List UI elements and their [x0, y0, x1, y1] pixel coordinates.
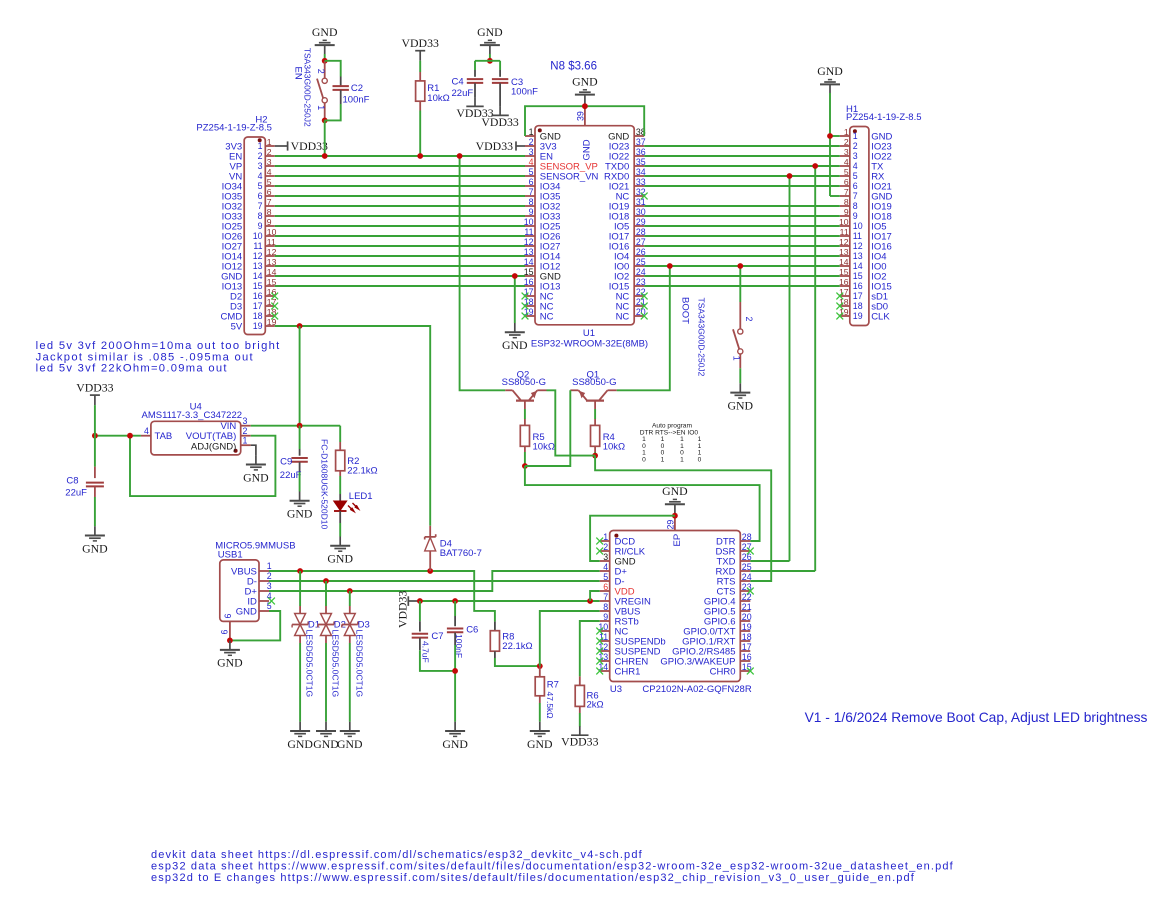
U1 pin 10 IO25: [525, 225, 535, 227]
svg-text:1: 1: [680, 456, 684, 463]
junction EP ground: [672, 513, 678, 519]
junction USB shield: [227, 638, 233, 644]
svg-text:C9: C9: [280, 457, 292, 468]
ground below D1: [299, 722, 301, 731]
junction U1 top GND: [582, 103, 588, 109]
svg-text:2: 2: [529, 137, 534, 147]
capacitor C7 4.7uF: [419, 601, 421, 621]
junction TAB VDD33 C8: [92, 433, 98, 439]
ground below USB1: [229, 641, 231, 650]
U1 pin 11 IO26: [525, 235, 535, 237]
resistor R1 10k: [419, 72, 421, 81]
H1 pin 5 RX: [840, 175, 850, 177]
svg-text:4: 4: [258, 171, 263, 181]
svg-text:7: 7: [853, 191, 858, 201]
wire VP H2.3 to U1: [275, 165, 525, 167]
U1 pin 32 NC: [634, 195, 644, 197]
wire U3 RSTb to R6: [580, 621, 600, 676]
wire D3 to ground: [349, 643, 351, 722]
connector H2 PZ254-1-19-Z-8.5: [244, 137, 265, 335]
svg-text:3: 3: [844, 147, 849, 157]
svg-text:10: 10: [839, 217, 849, 227]
H1 pin 9 IO18: [840, 215, 850, 217]
svg-text:2: 2: [316, 69, 326, 74]
capacitor C6 100nF: [454, 601, 456, 616]
wire EN row branch down to Q2 collector: [460, 156, 506, 390]
H1 pin 4 TX: [840, 165, 850, 167]
svg-text:18: 18: [253, 311, 263, 321]
svg-text:2kΩ: 2kΩ: [587, 699, 604, 710]
svg-text:3: 3: [267, 157, 272, 167]
svg-text:22.1kΩ: 22.1kΩ: [502, 641, 532, 652]
svg-text:devkit data sheet https://dl.e: devkit data sheet https://dl.espressif.c…: [151, 849, 643, 861]
svg-text:4: 4: [603, 562, 608, 572]
junction 5V to regulator: [297, 323, 303, 329]
wire divider node to U3 VBUS pin: [540, 611, 600, 666]
svg-text:C7: C7: [431, 631, 443, 642]
U3 pin 22 GPIO.4: [740, 600, 750, 602]
svg-text:NC: NC: [616, 311, 630, 322]
U1 pin 1 GND: [525, 135, 535, 137]
junction D4 on VBUS: [427, 568, 433, 574]
U3 pin 10 NC: [600, 630, 610, 632]
USB1 pin 4 ID: [259, 600, 269, 602]
resistor R4 10k: [594, 419, 596, 425]
svg-text:13: 13: [524, 247, 534, 257]
U1 pin 25 IO0: [634, 265, 644, 267]
wire IO12 H2.13 to U1: [275, 265, 525, 267]
svg-text:SS8050-G: SS8050-G: [572, 377, 616, 388]
U1 pin 22 NC: [634, 295, 644, 297]
wire TAB row: [95, 435, 141, 437]
svg-text:9: 9: [258, 221, 263, 231]
svg-text:14: 14: [524, 257, 534, 267]
U1 pin 2 3V3: [525, 145, 535, 147]
USB1 pin 2 D-: [259, 580, 269, 582]
U1 pin 24 IO2: [634, 275, 644, 277]
svg-text:6: 6: [223, 614, 233, 619]
wire LED1 to ground: [339, 523, 341, 537]
svg-text:NC: NC: [540, 311, 554, 322]
wire R8 bottom to divider node: [495, 658, 540, 666]
U3 pin 25 RXD: [740, 570, 750, 572]
svg-text:15: 15: [839, 267, 849, 277]
H1 pin 15 IO2: [840, 275, 850, 277]
svg-text:GND: GND: [502, 338, 528, 352]
svg-text:V1 - 1/6/2024 Remove Boot Cap,: V1 - 1/6/2024 Remove Boot Cap, Adjust LE…: [805, 710, 1148, 725]
H2 pin 5 IO34: [265, 185, 274, 187]
svg-text:2: 2: [844, 137, 849, 147]
H2 pin 15 IO13: [265, 285, 274, 287]
U3 pin 26 TXD: [740, 560, 750, 562]
USB1 pin 3 D+: [259, 590, 269, 592]
U1 pin 39 GND pad: [584, 106, 586, 126]
diode D4 BAT760-7: [429, 526, 431, 537]
svg-text:LED1: LED1: [349, 491, 373, 502]
svg-text:CHR0: CHR0: [710, 666, 736, 677]
U1 pin 38 GND: [634, 135, 644, 137]
svg-text:GND: GND: [442, 737, 468, 751]
H2 pin 6 IO35: [265, 195, 274, 197]
wire IO17 U1 to H1: [644, 235, 840, 237]
svg-text:8: 8: [267, 207, 272, 217]
svg-text:GND: GND: [313, 737, 339, 751]
svg-text:5: 5: [853, 171, 858, 181]
svg-text:ADJ(GND): ADJ(GND): [191, 441, 236, 452]
wire IO35 H2.6 to U1: [275, 195, 525, 197]
svg-text:EN: EN: [293, 67, 304, 80]
H1 pin 18 sD0: [840, 305, 850, 307]
U1 pin 14 IO12: [525, 265, 535, 267]
svg-text:GND: GND: [236, 606, 257, 617]
svg-text:8: 8: [529, 197, 534, 207]
svg-text:USB1: USB1: [218, 550, 243, 561]
svg-text:17: 17: [853, 291, 863, 301]
wire RX net U1.RXD0 to U3.TXD: [789, 176, 791, 561]
H1 pin 11 IO17: [840, 235, 850, 237]
svg-text:5: 5: [844, 167, 849, 177]
ground below LED1: [339, 537, 341, 546]
U3 pin 5 D-: [600, 580, 610, 582]
U3 pin 17 GPIO.2/RS485: [740, 650, 750, 652]
svg-text:15: 15: [853, 271, 863, 281]
svg-text:5: 5: [603, 572, 608, 582]
capacitor C4 22uF: [474, 61, 476, 70]
svg-text:2: 2: [267, 147, 272, 157]
svg-text:VDD33: VDD33: [481, 115, 518, 129]
svg-text:16: 16: [839, 277, 849, 287]
svg-text:3: 3: [529, 147, 534, 157]
ground below C8: [94, 526, 96, 535]
svg-text:5V: 5V: [231, 321, 243, 332]
wire IO18 U1 to H1: [644, 215, 840, 217]
svg-text:18: 18: [742, 632, 752, 642]
ground above U3 EP: [673, 498, 677, 500]
wire GND H2.14 to U1: [275, 275, 525, 277]
svg-text:4.7uF: 4.7uF: [420, 641, 430, 663]
ground below C9: [299, 492, 301, 501]
H2 pin 10 IO26: [265, 235, 274, 237]
svg-text:1: 1: [267, 561, 272, 571]
junction EN switch bottom: [322, 118, 328, 124]
svg-text:14: 14: [853, 261, 863, 271]
wire VDD33 row to U3 VREGIN: [418, 600, 600, 602]
junction D3 on D+: [347, 588, 353, 594]
svg-text:6: 6: [267, 187, 272, 197]
U1 pin 12 IO27: [525, 245, 535, 247]
U1 pin 34 RXD0: [634, 175, 644, 177]
svg-text:2: 2: [243, 426, 248, 436]
svg-text:PZ254-1-19-Z-8.5: PZ254-1-19-Z-8.5: [846, 112, 922, 123]
svg-text:PZ254-1-19-Z-8.5: PZ254-1-19-Z-8.5: [196, 123, 272, 134]
svg-text:SS8050-G: SS8050-G: [502, 377, 546, 388]
U3 pin 4 D+: [600, 570, 610, 572]
U1 pin 19 NC: [525, 315, 535, 317]
wire IO15 U1 to H1: [644, 285, 840, 287]
svg-text:11: 11: [840, 227, 849, 237]
svg-text:10: 10: [253, 231, 263, 241]
TVS diode D3 LESD5D5.0CT1G: [349, 591, 351, 606]
junction VDD jog: [587, 598, 593, 604]
LED LED1: [339, 494, 341, 501]
ground below D2: [325, 722, 327, 731]
wire GND to H1 pins 1 and 7: [829, 93, 831, 196]
TVS diode D1 LESD5D5.0CT1G: [299, 571, 301, 606]
U1 pin 27 IO16: [634, 245, 644, 247]
U1 pin 3 EN: [525, 155, 535, 157]
wire C8 to ground: [94, 497, 96, 526]
H1 pin 6 IO21: [840, 185, 850, 187]
svg-text:EP: EP: [672, 534, 683, 547]
svg-text:9: 9: [529, 207, 534, 217]
wire DTR net R5 to U3 pin28: [525, 466, 760, 541]
H2 pin 13 IO12: [265, 265, 274, 267]
svg-text:39: 39: [575, 111, 585, 121]
wire EN switch to EN net: [324, 120, 326, 156]
power VDD33 below R6: [571, 734, 588, 736]
H1 pin 1 GND: [840, 135, 850, 137]
svg-text:100nF: 100nF: [343, 94, 370, 105]
wire 5V down to U4 VIN: [299, 326, 301, 426]
svg-text:13: 13: [839, 247, 849, 257]
svg-text:BOOT: BOOT: [680, 297, 691, 324]
svg-text:10: 10: [524, 217, 534, 227]
ground below U4 ADJ: [255, 455, 257, 464]
wire Q1 collector to IO0: [617, 266, 670, 390]
svg-text:1: 1: [267, 137, 272, 147]
svg-text:1: 1: [243, 436, 248, 446]
wire IO16 U1 to H1: [644, 245, 840, 247]
U3 pin 8 VBUS: [600, 610, 610, 612]
svg-text:1: 1: [316, 105, 326, 110]
U3 pin 14 CHR1: [600, 670, 610, 672]
svg-text:ESP32-WROOM-32E(8MB): ESP32-WROOM-32E(8MB): [531, 339, 648, 350]
wire R7 to ground: [539, 703, 541, 722]
junction EN switch top: [322, 58, 328, 64]
svg-text:1: 1: [603, 532, 608, 542]
H2 pin 11 IO27: [265, 245, 274, 247]
U1 pin 17 NC: [525, 295, 535, 297]
svg-text:GND: GND: [327, 552, 353, 566]
wire D- row USB to U3: [269, 580, 600, 582]
IC U4 AMS1117-3.3: [151, 421, 241, 455]
svg-text:esp32d to E changes https://ww: esp32d to E changes https://www.espressi…: [151, 872, 915, 884]
svg-text:R7: R7: [547, 680, 559, 691]
svg-text:CHR1: CHR1: [615, 666, 641, 677]
wire TX net U1.TXD0 to U3.RXD: [814, 166, 816, 571]
wire VIN row to R2: [339, 426, 341, 442]
svg-text:AMS1117-3.3_C347222: AMS1117-3.3_C347222: [142, 410, 243, 421]
power VDD33 below C4: [466, 105, 483, 107]
U1 pin 18 NC: [525, 305, 535, 307]
svg-text:28: 28: [742, 532, 752, 542]
svg-text:22uF: 22uF: [452, 88, 474, 99]
wire VBUS row from USB1: [269, 571, 495, 622]
USB1 pin 5 GND: [259, 610, 269, 612]
wire RX U1 to H1: [644, 175, 840, 177]
wire U1 pin1/pin38/pin39 GND loop: [525, 106, 644, 136]
wire GND row branch below U1: [514, 276, 516, 323]
svg-text:LESD5D5.0CT1G: LESD5D5.0CT1G: [354, 630, 364, 698]
U1 pin 4 SENSOR_VP: [525, 165, 535, 167]
svg-text:GND: GND: [477, 25, 503, 39]
U1 pin 15 GND: [525, 275, 535, 277]
U3 pin 29 EP pad: [674, 516, 676, 531]
power VDD33 at U1 pin2: [516, 145, 525, 147]
wire Q2 emitter to R4 bottom: [547, 390, 596, 455]
svg-text:4: 4: [844, 157, 849, 167]
H2 pin 14 GND: [265, 275, 274, 277]
resistor R7 47.5k: [539, 666, 541, 677]
svg-text:VDD33: VDD33: [476, 139, 513, 153]
svg-text:12: 12: [253, 251, 263, 261]
svg-text:9: 9: [844, 207, 849, 217]
svg-text:0: 0: [642, 456, 646, 463]
svg-text:6: 6: [220, 630, 230, 635]
svg-text:TSA343G00D-250J2: TSA343G00D-250J2: [697, 298, 707, 377]
wire IO27 H2.11 to U1: [275, 245, 525, 247]
H2 pin 19 5V: [265, 325, 274, 327]
U1 pin 33 IO21: [634, 185, 644, 187]
svg-text:15: 15: [253, 281, 263, 291]
svg-text:CLK: CLK: [871, 311, 890, 322]
wire C9 to ground: [299, 472, 301, 492]
svg-text:12: 12: [524, 237, 534, 247]
svg-text:4: 4: [529, 157, 534, 167]
wire GND to EN switch: [324, 54, 326, 61]
power VDD33 for U3: [407, 596, 409, 606]
junction R8 R7 VBUS divider: [537, 663, 543, 669]
U1 pin 20 NC: [634, 315, 644, 317]
svg-text:24: 24: [742, 572, 752, 582]
wire U3 VDD pin6 jog to VREGIN: [590, 591, 600, 601]
USB1 pin 4 no-connect X: [268, 598, 275, 605]
wire IO5 U1 to H1: [644, 225, 840, 227]
svg-text:GND: GND: [572, 74, 598, 88]
svg-text:VDD33: VDD33: [396, 591, 410, 628]
wire R1 to EN row: [419, 111, 421, 157]
svg-text:FC-D1608UGK-520D10: FC-D1608UGK-520D10: [319, 439, 329, 530]
ground above H1: [828, 79, 832, 81]
wire IO34 H2.5 to U1: [275, 185, 525, 187]
H2 pin 2 EN: [265, 155, 274, 157]
U3 pin 3 GND: [600, 560, 610, 562]
H2 pin 1 3V3: [265, 145, 274, 147]
svg-text:22uF: 22uF: [280, 470, 302, 481]
svg-text:12: 12: [853, 241, 863, 251]
capacitor C9 22uF: [299, 426, 301, 449]
svg-text:led 5v 3vf 22kOhm=0.09ma out: led 5v 3vf 22kOhm=0.09ma out: [36, 362, 228, 374]
wire IO22 U1 to H1: [644, 155, 840, 157]
H1 pin 17 sD1: [840, 295, 850, 297]
svg-text:16: 16: [853, 281, 863, 291]
svg-text:22uF: 22uF: [65, 488, 87, 499]
IC U3 CP2102N-A02-GQFN28R: [610, 531, 741, 682]
U3 pin 9 RSTb: [600, 620, 610, 622]
U3 pin 23 CTS: [740, 590, 750, 592]
svg-text:10kΩ: 10kΩ: [533, 442, 555, 453]
svg-text:BAT760-7: BAT760-7: [440, 548, 482, 559]
svg-text:U3: U3: [610, 684, 622, 695]
junction R1 on EN row: [417, 153, 423, 159]
svg-text:7: 7: [844, 187, 849, 197]
capacitor C3 100nF: [499, 61, 501, 70]
wire R2 to LED1: [339, 476, 341, 494]
svg-text:0: 0: [698, 456, 702, 463]
H1 pin 3 IO22: [840, 155, 850, 157]
svg-text:VDD33: VDD33: [561, 735, 598, 749]
wire R5 to DTR net: [524, 452, 526, 466]
svg-text:11: 11: [267, 237, 276, 247]
svg-text:6: 6: [844, 177, 849, 187]
resistor R5 10k: [524, 419, 526, 425]
U3 pin 24 RTS: [740, 580, 750, 582]
wire GND to C4 C3: [489, 54, 491, 61]
U3 pin 15 CHR0: [740, 670, 750, 672]
USB1 pin 1 VBUS: [259, 570, 269, 572]
wire C6 bottom to ground: [454, 645, 456, 722]
switch EN TSA343G00D-250J2: [324, 61, 326, 78]
svg-text:25: 25: [742, 562, 752, 572]
wire D1 to ground: [299, 643, 301, 722]
wire D+ row USB to U3 crossover: [269, 571, 600, 591]
svg-text:VDD33: VDD33: [291, 139, 328, 153]
junction VIN C9: [297, 423, 303, 429]
U3 pin 1 DCD: [600, 540, 610, 542]
U3 pin 27 DSR: [740, 550, 750, 552]
svg-text:GND: GND: [287, 737, 313, 751]
H2 pin 18 CMD: [265, 315, 274, 317]
svg-text:8: 8: [844, 197, 849, 207]
svg-text:15: 15: [524, 267, 534, 277]
svg-text:4: 4: [853, 161, 858, 171]
svg-text:VDD33: VDD33: [402, 36, 439, 50]
svg-text:29: 29: [665, 520, 675, 530]
svg-text:3: 3: [258, 161, 263, 171]
connector H1 PZ254-1-19-Z-8.5: [850, 127, 869, 326]
U1 pin 6 IO34: [525, 185, 535, 187]
capacitor C8 22uF: [94, 467, 96, 479]
junction Q1 collector on IO0 row: [667, 263, 673, 269]
svg-text:GND: GND: [337, 737, 363, 751]
svg-text:12: 12: [839, 237, 849, 247]
svg-text:1: 1: [529, 127, 534, 137]
svg-text:18: 18: [853, 301, 863, 311]
svg-text:17: 17: [742, 642, 752, 652]
junction R4 bottom: [592, 453, 598, 459]
wire IO33 H2.8 to U1: [275, 215, 525, 217]
H2 pin 9 IO25: [265, 225, 274, 227]
svg-text:3: 3: [267, 581, 272, 591]
svg-text:10: 10: [853, 221, 863, 231]
U3 pin 11 SUSPENDb: [600, 640, 610, 642]
svg-text:2: 2: [603, 542, 608, 552]
U1 pin 36 IO22: [634, 155, 644, 157]
wire IO19 U1 to H1: [644, 205, 840, 207]
U3 pin 28 DTR: [740, 540, 750, 542]
H1 pin 7 GND: [840, 195, 850, 197]
H2 pin 16 D2: [265, 295, 274, 297]
U1 pin 9 IO33: [525, 215, 535, 217]
wire IO21 U1 to H1: [644, 185, 840, 187]
H2 pin 3 VP: [265, 165, 274, 167]
H2 pin 8 IO33: [265, 215, 274, 217]
H1 pin 19 CLK: [840, 315, 850, 317]
svg-text:6: 6: [258, 191, 263, 201]
wire IO23 U1 to H1: [644, 145, 840, 147]
wire 5V from H2 pin19: [275, 326, 431, 526]
wire IO32 H2.7 to U1: [275, 205, 525, 207]
